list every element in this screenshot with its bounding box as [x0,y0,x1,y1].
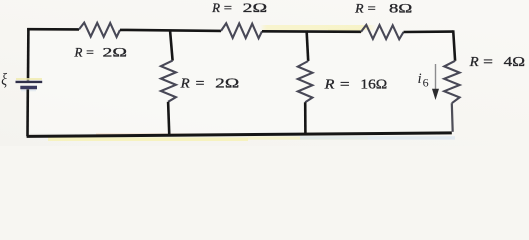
wire bottom rail [27,133,452,137]
wire node1 branch lower [168,102,169,136]
svg-text:ξ: ξ [1,70,7,89]
current arrow i6 head [432,89,439,100]
resistor 4ohm vertical (right) zigzag [444,61,459,103]
resistor 8ohm top-right zigzag [361,25,404,39]
wire top rail right segment [404,30,454,33]
wire left branch lower [26,89,29,136]
battery short thick plate (negative) [20,86,37,89]
yellow highlight band above top rail (scan artifact) [260,25,376,30]
wire top rail second segment [120,30,221,31]
wire node2 branch lower [304,102,307,134]
wire node1 branch upper [170,30,173,61]
wire left branch upper (to battery) [27,28,30,80]
yellow/pink glow below bottom rail (scan artifact) [48,137,248,141]
wire top rail left segment [27,28,79,31]
wire right branch upper [453,30,455,61]
resistor 2ohm top-middle zigzag [221,23,262,38]
resistor 2ohm vertical (node1) zigzag [161,61,176,102]
current arrow i6 line [435,64,437,92]
resistor 16ohm vertical (node2) zigzag [298,61,313,102]
light blue glow under battery plate [21,89,36,91]
wire right branch lower [451,103,454,132]
battery source: yellow glow above plate [16,78,42,80]
battery long plate (positive) [16,81,43,83]
wire top rail third segment [262,30,361,33]
wire node2 branch upper [307,31,309,62]
resistor 2ohm top-left zigzag [79,23,120,37]
